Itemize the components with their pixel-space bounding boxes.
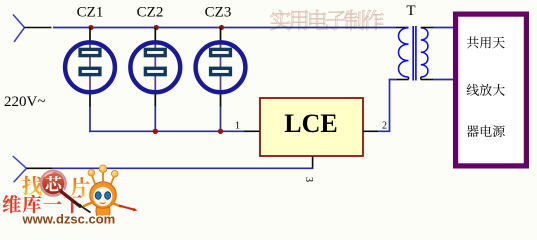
socket CZ1 (65, 41, 115, 95)
watermark mascot (84, 165, 138, 221)
watermark magnifier (41, 171, 66, 196)
wire middle bus (89, 130, 244, 132)
wire transformer bottom-right pin (421, 79, 433, 81)
wire top bus (53, 27, 396, 29)
label 线放大 (467, 84, 479, 96)
wire pin CZ2 top (154, 28, 156, 41)
svg-text:1: 1 (235, 121, 240, 132)
wire pin CZ2 bottom (154, 95, 156, 108)
label 共用天 (467, 36, 479, 48)
watermark 片 (70, 177, 90, 197)
transformer T primary coil (399, 28, 409, 77)
transformer T secondary coil (421, 28, 428, 77)
transformer core (412, 26, 414, 81)
svg-text:2: 2 (382, 121, 387, 132)
wire CZ1 down to bus (89, 106, 91, 132)
wire pin CZ1 top (89, 28, 91, 41)
svg-text:LCE: LCE (284, 109, 337, 138)
wire pin CZ3 bottom (220, 95, 222, 108)
port arrow bottom-left (13, 156, 27, 182)
wire top black stub (25, 27, 52, 29)
watermark 找 (22, 176, 42, 196)
svg-text:CZ3: CZ3 (205, 4, 232, 20)
ghost watermark 实用电子制作 (270, 10, 290, 30)
wire pin2 to transformer (378, 80, 397, 132)
port arrow top-left (13, 15, 25, 43)
socket CZ3 (196, 41, 246, 95)
wire coil bottom connectors (408, 77, 410, 80)
node junction dot CZ1 top (88, 25, 93, 30)
wire transformer bottom-left pin (397, 79, 409, 81)
svg-text:T: T (406, 3, 415, 19)
node junction dot CZ2 bottom (153, 129, 158, 134)
watermark 芯 in magnifier (45, 176, 61, 191)
svg-text:3: 3 (303, 177, 314, 182)
wire pin CZ3 top (220, 28, 222, 41)
label 器电源 (467, 125, 479, 137)
wire LCE pin 3 (312, 156, 314, 168)
wire CZ2 down to bus (154, 106, 156, 131)
socket CZ2 (130, 41, 180, 95)
node junction dot CZ3 bottom (218, 129, 223, 134)
wire transformer top-left pin (396, 27, 409, 29)
node junction dot CZ2 top (154, 25, 159, 30)
wire LCE pin 1 stub (244, 130, 260, 132)
svg-text:www.dzsc.com: www.dzsc.com (22, 212, 116, 227)
wire bottom bus (52, 167, 313, 169)
amplifier power supply box (456, 14, 527, 166)
wire transformer top-right pin (421, 27, 433, 29)
LCE box U1 (260, 98, 363, 156)
node junction dot CZ3 top (219, 25, 224, 30)
wire pin CZ1 bottom (89, 95, 91, 108)
svg-text:220V~: 220V~ (4, 94, 45, 110)
watermark 维库一下 (3, 195, 21, 213)
svg-text:CZ2: CZ2 (137, 4, 164, 20)
watermark magnifier handle pen (62, 190, 91, 213)
wire LCE pin 2 stub (363, 130, 378, 132)
wire CZ3 down to bus (220, 106, 222, 131)
svg-text:CZ1: CZ1 (77, 4, 104, 20)
wire bottom black stub (27, 167, 53, 169)
